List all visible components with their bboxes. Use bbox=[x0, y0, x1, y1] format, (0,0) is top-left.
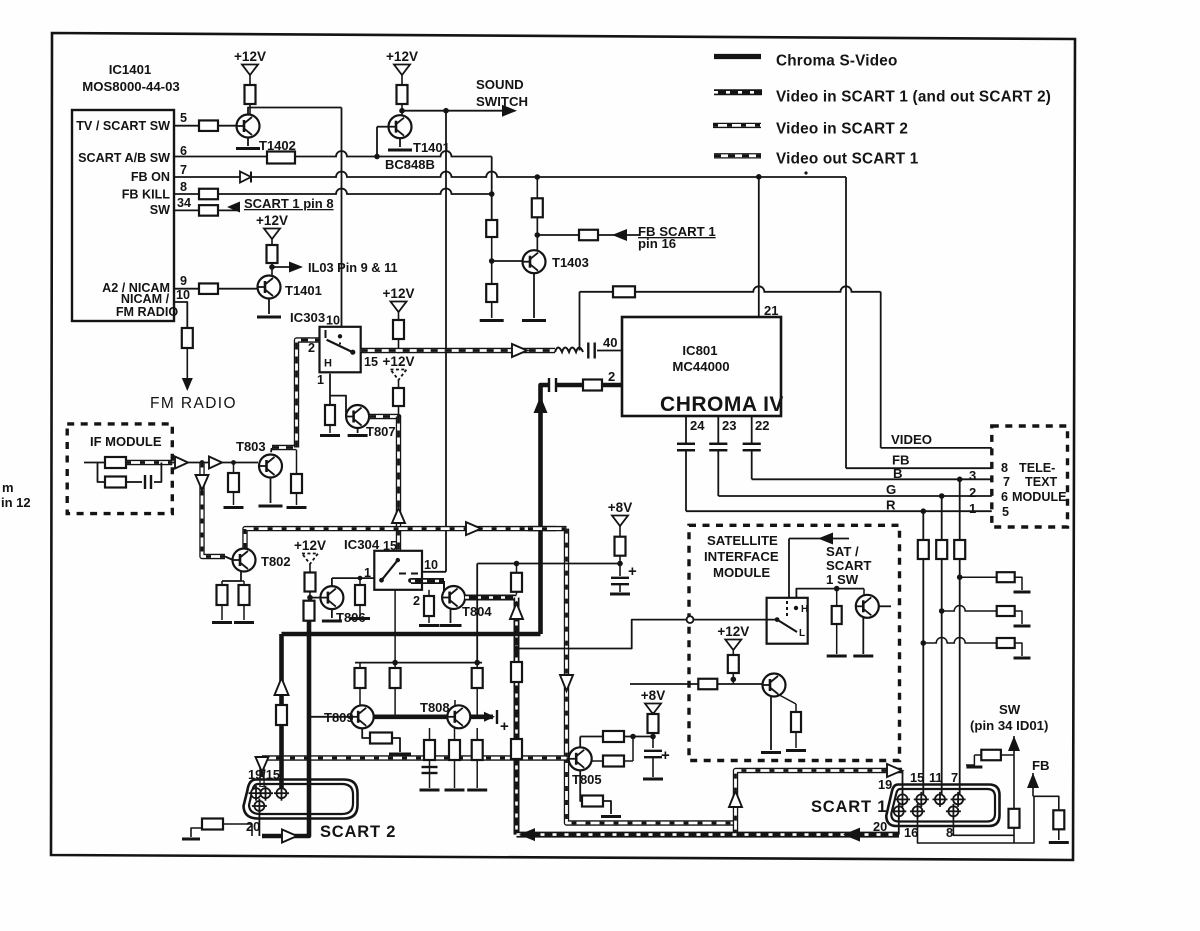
svg-text:MODULE: MODULE bbox=[713, 565, 770, 580]
svg-text:2: 2 bbox=[608, 369, 615, 384]
svg-text:7: 7 bbox=[951, 770, 958, 785]
svg-text:19/15: 19/15 bbox=[248, 767, 280, 782]
svg-text:SCART 2: SCART 2 bbox=[320, 823, 396, 841]
svg-text:+8V: +8V bbox=[641, 688, 665, 703]
svg-text:INTERFACE: INTERFACE bbox=[704, 549, 779, 564]
svg-text:SCART 1 pin 8: SCART 1 pin 8 bbox=[244, 196, 334, 211]
svg-text:FB: FB bbox=[1032, 758, 1050, 773]
svg-text:10: 10 bbox=[424, 558, 438, 572]
svg-text:pin 16: pin 16 bbox=[638, 236, 676, 251]
svg-text:T807: T807 bbox=[366, 424, 396, 439]
svg-text:Video out SCART 1: Video out SCART 1 bbox=[776, 151, 919, 168]
svg-text:H: H bbox=[801, 604, 808, 615]
svg-text:15: 15 bbox=[910, 770, 924, 785]
svg-text:1: 1 bbox=[317, 373, 324, 387]
svg-text:R: R bbox=[886, 498, 896, 513]
svg-text:SOUND: SOUND bbox=[476, 77, 524, 92]
svg-text:SW: SW bbox=[999, 702, 1021, 717]
svg-text:SATELLITE: SATELLITE bbox=[707, 533, 778, 548]
svg-text:+12V: +12V bbox=[234, 49, 266, 64]
svg-text:Video in SCART 2: Video in SCART 2 bbox=[776, 121, 908, 138]
svg-text:8: 8 bbox=[1001, 461, 1008, 475]
svg-text:7: 7 bbox=[180, 163, 187, 177]
svg-text:+12V: +12V bbox=[294, 538, 326, 553]
svg-text:16: 16 bbox=[904, 825, 918, 840]
svg-text:m: m bbox=[2, 480, 14, 495]
svg-text:+: + bbox=[500, 718, 509, 735]
svg-text:FB ON: FB ON bbox=[131, 170, 170, 184]
svg-text:7: 7 bbox=[1003, 475, 1010, 489]
svg-text:Chroma S-Video: Chroma S-Video bbox=[776, 53, 898, 70]
svg-text:+12V: +12V bbox=[386, 49, 418, 64]
svg-text:24: 24 bbox=[690, 418, 705, 433]
svg-text:IF MODULE: IF MODULE bbox=[90, 434, 162, 449]
svg-text:B: B bbox=[893, 466, 903, 481]
svg-text:FB KILL: FB KILL bbox=[122, 188, 171, 202]
svg-text:+: + bbox=[628, 563, 637, 580]
svg-text:H: H bbox=[324, 358, 332, 370]
svg-text:2: 2 bbox=[308, 341, 315, 355]
svg-text:SCART 1: SCART 1 bbox=[811, 798, 887, 816]
svg-text:34: 34 bbox=[177, 196, 191, 210]
svg-text:19: 19 bbox=[878, 777, 892, 792]
svg-text:IC1401: IC1401 bbox=[109, 62, 152, 77]
svg-text:SCART A/B SW: SCART A/B SW bbox=[78, 151, 170, 165]
svg-text:FM RADIO: FM RADIO bbox=[150, 395, 237, 412]
svg-text:2: 2 bbox=[413, 594, 420, 608]
svg-text:+8V: +8V bbox=[608, 500, 632, 515]
svg-text:SWITCH: SWITCH bbox=[476, 94, 528, 109]
svg-text:T802: T802 bbox=[261, 554, 291, 569]
svg-text:10: 10 bbox=[176, 288, 190, 302]
svg-text:5: 5 bbox=[180, 111, 187, 125]
svg-text:NICAM /: NICAM / bbox=[121, 292, 170, 306]
svg-text:+: + bbox=[661, 747, 670, 764]
svg-text:TELE-: TELE- bbox=[1019, 461, 1055, 475]
svg-text:8: 8 bbox=[180, 180, 187, 194]
svg-text:15: 15 bbox=[364, 355, 378, 369]
svg-text:T1403: T1403 bbox=[552, 255, 589, 270]
svg-text:T1401: T1401 bbox=[413, 140, 450, 155]
svg-text:3: 3 bbox=[969, 468, 976, 483]
svg-text:Video in SCART 1 (and out SCAR: Video in SCART 1 (and out SCART 2) bbox=[776, 89, 1051, 106]
svg-text:BC848B: BC848B bbox=[385, 157, 435, 172]
svg-text:IC801: IC801 bbox=[682, 343, 717, 358]
svg-text:+12V: +12V bbox=[383, 286, 415, 301]
svg-text:T1401: T1401 bbox=[285, 283, 322, 298]
svg-text:+12V: +12V bbox=[256, 213, 288, 228]
svg-text:6: 6 bbox=[1001, 490, 1008, 504]
svg-text:TEXT: TEXT bbox=[1025, 475, 1057, 489]
svg-text:+12V: +12V bbox=[717, 624, 749, 639]
svg-text:TV / SCART SW: TV / SCART SW bbox=[76, 119, 170, 133]
svg-text:MOS8000-44-03: MOS8000-44-03 bbox=[82, 79, 180, 94]
svg-text:SCART: SCART bbox=[826, 558, 871, 573]
svg-text:20: 20 bbox=[873, 819, 887, 834]
svg-text:8: 8 bbox=[946, 825, 953, 840]
svg-text:MC44000: MC44000 bbox=[672, 359, 729, 374]
svg-text:9: 9 bbox=[180, 274, 187, 288]
svg-text:T808: T808 bbox=[420, 700, 450, 715]
svg-text:23: 23 bbox=[722, 418, 736, 433]
svg-text:10: 10 bbox=[326, 314, 340, 328]
svg-text:T803: T803 bbox=[236, 439, 266, 454]
svg-text:SAT /: SAT / bbox=[826, 544, 859, 559]
svg-text:IC303: IC303 bbox=[290, 310, 325, 325]
svg-text:40: 40 bbox=[603, 335, 617, 350]
svg-text:FM RADIO: FM RADIO bbox=[116, 305, 178, 319]
svg-text:T805: T805 bbox=[572, 772, 602, 787]
svg-text:VIDEO: VIDEO bbox=[891, 432, 932, 447]
svg-text:SW: SW bbox=[150, 203, 170, 217]
svg-text:11: 11 bbox=[929, 770, 943, 785]
svg-text:1: 1 bbox=[969, 501, 976, 516]
svg-text:MODULE: MODULE bbox=[1012, 490, 1067, 504]
svg-text:G: G bbox=[886, 482, 896, 497]
svg-text:IL03 Pin 9 & 11: IL03 Pin 9 & 11 bbox=[308, 260, 398, 275]
svg-text:2: 2 bbox=[969, 485, 976, 500]
svg-text:22: 22 bbox=[755, 418, 769, 433]
svg-text:20: 20 bbox=[246, 819, 260, 834]
svg-text:(pin 34 ID01): (pin 34 ID01) bbox=[970, 718, 1048, 733]
svg-text:in 12: in 12 bbox=[1, 495, 31, 510]
svg-text:1 SW: 1 SW bbox=[826, 572, 859, 587]
svg-text:+12V: +12V bbox=[383, 354, 415, 369]
svg-text:IC304: IC304 bbox=[344, 537, 380, 552]
svg-text:CHROMA IV: CHROMA IV bbox=[660, 393, 784, 416]
svg-text:L: L bbox=[799, 628, 805, 639]
svg-text:5: 5 bbox=[1002, 505, 1009, 519]
